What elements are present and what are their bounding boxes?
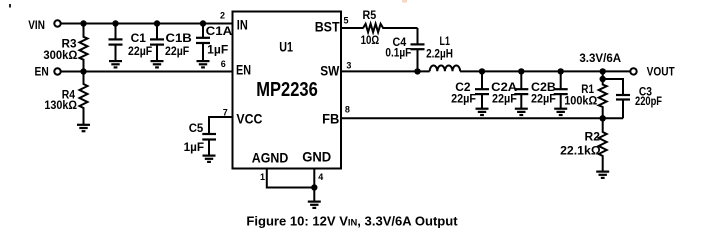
node junction dot top rail R3 [80, 20, 86, 26]
svg-text:22µF: 22µF [492, 92, 517, 106]
wire C3 branch bottom [622, 100, 624, 119]
node junction dot EN rail [80, 68, 86, 74]
svg-text:22.1kΩ: 22.1kΩ [560, 144, 601, 158]
svg-text:4: 4 [318, 172, 323, 182]
capacitor C5 [202, 134, 216, 140]
ground below C2 [476, 109, 489, 115]
svg-text:0.1µF: 0.1µF [385, 46, 411, 60]
ground below C2A [515, 109, 528, 115]
svg-text:3: 3 [346, 61, 351, 71]
node EN terminal [54, 68, 60, 74]
wire AGND pin 1 [267, 169, 315, 188]
capacitor C1B [156, 24, 158, 40]
node junction dot C1A [200, 20, 206, 26]
ground below C1 [109, 61, 122, 67]
capacitor C3 [616, 95, 630, 100]
artifact smudge top [402, 0, 407, 3]
svg-text:22µF: 22µF [128, 44, 152, 58]
wire BST pin 5 to R5 [341, 27, 364, 29]
inductor L1 [430, 66, 460, 72]
svg-text:FB: FB [322, 111, 339, 127]
node junction dot C1B [154, 20, 160, 26]
svg-text:220pF: 220pF [635, 94, 662, 108]
resistor R3 [80, 24, 88, 72]
svg-text:VCC: VCC [236, 111, 262, 127]
svg-text:8: 8 [345, 105, 350, 115]
svg-text:300kΩ: 300kΩ [43, 48, 77, 62]
node junction dot C2B [558, 68, 564, 74]
svg-text:2.2µH: 2.2µH [426, 47, 453, 61]
artifact mark top left [9, 4, 11, 8]
svg-text:10Ω: 10Ω [361, 33, 380, 47]
svg-text:U1: U1 [279, 39, 293, 55]
svg-text:BST: BST [315, 19, 340, 35]
capacitor C1 [115, 24, 117, 40]
ground below C1B [151, 61, 164, 67]
ground below C1A [197, 61, 210, 67]
resistor R5 [363, 24, 417, 32]
wire EN rail [61, 71, 232, 73]
resistor R1 [599, 71, 607, 118]
svg-text:SW: SW [320, 63, 340, 79]
svg-text:C1B: C1B [166, 31, 193, 45]
node junction dot C2A [518, 68, 524, 74]
svg-text:R5: R5 [363, 8, 377, 22]
svg-text:Figure 10: 12V VIN, 3.3V/6A Ou: Figure 10: 12V VIN, 3.3V/6A Output [246, 215, 458, 229]
node junction dot C4 SW [414, 68, 420, 74]
resistor R4 [80, 72, 88, 125]
svg-text:AGND: AGND [252, 150, 288, 166]
node VIN terminal [54, 20, 60, 26]
wire top rail VIN to IN [61, 23, 232, 25]
svg-text:C5: C5 [189, 121, 204, 135]
wire SW pin 3 to inductor [341, 70, 430, 72]
svg-text:22µF: 22µF [165, 44, 189, 58]
node VOUT terminal [630, 68, 636, 74]
svg-text:1µF: 1µF [184, 140, 204, 154]
svg-text:3.3V/6A: 3.3V/6A [579, 51, 621, 65]
wire GND pin 4 [313, 169, 315, 202]
ground below R4 [77, 125, 90, 131]
svg-text:EN: EN [236, 61, 251, 77]
node junction dot C2 [479, 68, 485, 74]
wire C3 branch top [603, 79, 623, 95]
svg-text:1µF: 1µF [207, 43, 228, 57]
svg-text:C1A: C1A [206, 24, 233, 38]
svg-text:2: 2 [220, 11, 225, 21]
capacitor C2B [560, 71, 562, 89]
svg-text:C1: C1 [131, 31, 147, 45]
wire BST branch down to C4 [417, 28, 419, 44]
svg-text:100kΩ: 100kΩ [564, 94, 597, 108]
ground below C5 [203, 156, 216, 162]
capacitor C2A [520, 71, 522, 89]
svg-text:MP2236: MP2236 [256, 79, 318, 101]
svg-text:IN: IN [237, 16, 248, 32]
node junction dot R1 top [600, 68, 606, 74]
svg-text:130kΩ: 130kΩ [44, 98, 77, 112]
svg-text:22µF: 22µF [451, 92, 476, 106]
svg-text:1: 1 [260, 172, 265, 182]
resistor R2 [599, 118, 607, 171]
svg-text:R2: R2 [585, 130, 601, 144]
svg-text:6: 6 [221, 59, 226, 69]
wire output rail to VOUT [460, 70, 630, 72]
ground below C2B [554, 109, 567, 115]
svg-text:EN: EN [35, 65, 49, 79]
capacitor C4 [411, 44, 425, 49]
svg-text:VOUT: VOUT [647, 65, 676, 79]
capacitor C1A [202, 24, 204, 38]
svg-text:22µF: 22µF [531, 92, 556, 106]
op-amp U1 IC body MP2236 [233, 12, 342, 169]
ground below R2 [596, 172, 609, 178]
node junction dot FB [600, 115, 606, 121]
svg-text:7: 7 [223, 108, 228, 118]
svg-text:VIN: VIN [28, 18, 45, 32]
wire VCC pin 7 to C5 [209, 117, 233, 134]
ground below GND pin [308, 202, 321, 208]
svg-text:GND: GND [302, 149, 331, 165]
node junction dot GND [311, 184, 317, 190]
svg-text:5: 5 [343, 16, 348, 26]
wire FB pin 8 rail [341, 117, 623, 119]
node junction dot C3 branch [600, 76, 606, 82]
node junction dot C1 [112, 20, 118, 26]
capacitor C2 [481, 71, 483, 89]
